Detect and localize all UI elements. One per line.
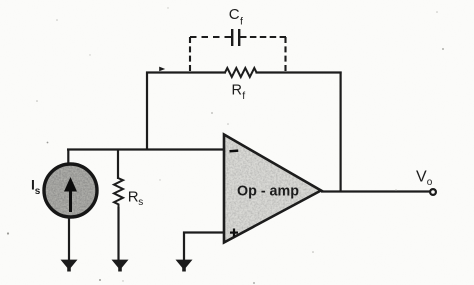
ground under Is	[61, 260, 78, 272]
svg-text:C: C	[229, 6, 240, 23]
minus input sign	[230, 149, 239, 152]
label Rf	[232, 83, 246, 103]
op-amp U1	[224, 135, 321, 243]
svg-text:V: V	[416, 169, 427, 186]
wire plus input ground drop	[183, 232, 185, 261]
capacitor Cf plates	[232, 29, 239, 46]
wire plus input	[183, 231, 224, 233]
wire feedback left vertical	[146, 72, 148, 151]
wire Rs bottom	[117, 207, 119, 260]
svg-text:o: o	[427, 177, 433, 188]
label Is	[31, 177, 41, 198]
label Vo	[416, 169, 433, 188]
svg-text:f: f	[240, 16, 243, 28]
current source Is	[44, 164, 97, 217]
plus input sign	[230, 229, 238, 237]
resistor Rs	[114, 178, 123, 208]
wire feedback top horizontal right	[256, 71, 342, 73]
svg-text:s: s	[35, 186, 41, 197]
ground under Rs	[112, 260, 129, 272]
resistor Rf	[225, 68, 257, 77]
wire Rs top	[117, 149, 119, 180]
svg-text:Op - amp: Op - amp	[237, 183, 299, 199]
svg-text:R: R	[232, 83, 242, 99]
wire output	[321, 190, 430, 192]
terminal Vo	[430, 189, 436, 195]
wire feedback top horizontal left	[146, 71, 226, 73]
wire stub to current source top	[67, 149, 69, 166]
label Rs	[128, 189, 144, 209]
label Cf	[229, 6, 243, 28]
arrow on feedback wire	[159, 67, 165, 72]
wire feedback right vertical	[340, 72, 342, 193]
wire current source bottom	[68, 217, 70, 261]
ground at plus input	[176, 260, 193, 272]
svg-text:s: s	[138, 197, 143, 208]
wire input node horizontal	[67, 148, 224, 150]
svg-text:R: R	[128, 189, 139, 206]
capacitor Cf dashed branch	[190, 37, 286, 71]
svg-text:f: f	[242, 90, 245, 102]
